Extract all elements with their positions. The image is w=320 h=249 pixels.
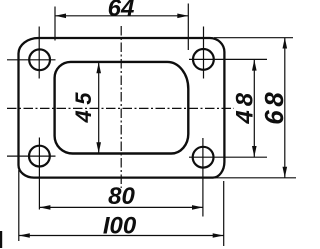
extension line 68 bottom	[215, 177, 296, 179]
svg-text:I00: I00	[103, 213, 137, 240]
centerline hole top-left horizontal	[7, 59, 56, 61]
centerline hole top-right horizontal / extension 48 top	[189, 58, 267, 60]
hole top-left	[29, 49, 50, 70]
arrow 80 right	[192, 205, 203, 210]
arrow 80 left	[39, 205, 50, 210]
arrow 48 up	[252, 60, 257, 71]
dimension line 100	[19, 235, 224, 237]
centerline hole top-left vertical	[38, 27, 40, 79]
inner opening	[55, 62, 189, 154]
arrow 68 up	[283, 38, 288, 49]
arrow 64 right	[177, 14, 188, 19]
dimension line 48	[253, 59, 255, 157]
centerline hole bottom-left horizontal	[7, 155, 56, 157]
extension line 68 top	[214, 37, 293, 39]
arrow 45 down	[96, 142, 101, 153]
arrow 64 left	[55, 14, 66, 19]
hole bottom-left	[29, 146, 50, 167]
centerline horizontal part axis	[7, 107, 234, 109]
svg-text:64: 64	[108, 0, 135, 22]
extension line 100 left	[18, 170, 20, 241]
centerline vertical part axis	[120, 26, 122, 188]
arrow 48 down	[252, 146, 257, 157]
centerline hole bottom-left vertical / extension 80 left	[38, 138, 40, 210]
arrow 68 down	[283, 167, 288, 178]
extension line 100 right	[223, 181, 225, 246]
hole bottom-right	[193, 147, 214, 168]
centerline hole bottom-right horizontal / extension 48 bottom	[189, 156, 267, 158]
dimension line 68	[284, 38, 286, 178]
arrow 45 up	[96, 62, 101, 73]
extension line 64 left	[54, 7, 56, 41]
arrow 100 right	[213, 233, 224, 238]
centerline hole top-right vertical	[203, 27, 205, 79]
svg-text:80: 80	[108, 183, 135, 210]
hole top-right	[193, 49, 214, 70]
scan smudge bottom-left corner	[0, 231, 2, 248]
arrow 100 left	[19, 233, 30, 238]
plate outline	[19, 38, 225, 178]
dimension line 45	[98, 63, 100, 154]
dimension line 64	[55, 15, 188, 17]
centerline hole bottom-right vertical / extension 80 right	[202, 138, 204, 217]
extension line 64 right	[187, 4, 189, 51]
dimension line 80	[39, 206, 203, 208]
